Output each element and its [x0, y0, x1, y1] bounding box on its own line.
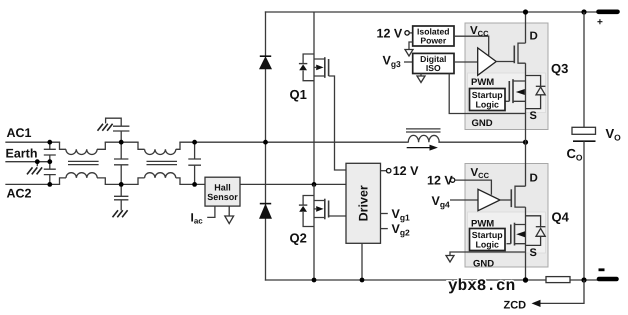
svg-text:Logic: Logic [475, 240, 499, 250]
transistor Q1 [299, 12, 346, 184]
svg-text:AC2: AC2 [7, 187, 32, 201]
capacitor chassis cap above AC1 with wire [106, 118, 130, 142]
resistor shunt [546, 277, 570, 283]
Hall sensor Iac lead [207, 206, 215, 217]
driver 12V terminal circle [387, 169, 391, 173]
Q3 inner shaded region [468, 73, 546, 113]
driver ground wire [361, 243, 363, 280]
svg-text:Q1: Q1 [290, 87, 307, 102]
svg-text:D: D [530, 173, 538, 185]
inductor common-mode choke L2 top winding [138, 142, 180, 184]
wire D1/D2 branch vertical [265, 12, 267, 280]
body diode Q3 [526, 76, 546, 109]
junction Q2 source x bottom rail [312, 278, 317, 283]
svg-text:Driver: Driver [357, 185, 371, 221]
label minus [599, 268, 605, 271]
wire isolated power gnd pin [409, 42, 413, 49]
svg-text:Power: Power [420, 36, 446, 46]
wire Q4 gnd to chassis arrow [450, 252, 526, 255]
capacitor below AC2 to chassis [114, 184, 128, 210]
svg-text:Sensor: Sensor [207, 192, 238, 202]
svg-text:+: + [597, 17, 603, 28]
wire digital ISO gnd to Q3 source [449, 74, 525, 114]
junction mid node (inductor / Q3 S / Q4 D) [523, 140, 528, 145]
junction node AC1 x D1/D2 [263, 140, 268, 145]
output + terminal bar [599, 10, 618, 15]
wire ZCD [538, 280, 584, 303]
ground arrow below digital ISO [417, 76, 425, 83]
svg-text:12 V: 12 V [393, 164, 419, 178]
junction driver gnd x bottom rail [360, 278, 365, 283]
svg-text:S: S [530, 110, 537, 122]
ground arrow below Hall [225, 206, 234, 224]
wire Q3 drain [525, 12, 527, 43]
startup logic box Q4 [470, 229, 506, 251]
transistor Q2 [299, 184, 346, 280]
transistor Q3 cascode low-voltage MOSFET [505, 79, 526, 103]
driver Vg1 stub [381, 213, 388, 215]
ground chassis hatch at Earth [27, 167, 42, 174]
inductor boost L [406, 129, 441, 142]
wire Earth line [6, 161, 50, 163]
wire top rail [266, 11, 600, 13]
svg-text:ybx8.cn: ybx8.cn [448, 277, 515, 295]
diode D2 [260, 204, 271, 219]
Q4 inner shaded region [468, 212, 546, 253]
driver 12V stub wire [381, 170, 387, 172]
junction Q4 source x bottom rail [523, 277, 528, 282]
svg-text:Q4: Q4 [552, 210, 570, 225]
wire right rail lower [583, 141, 585, 280]
isolated power box [413, 26, 454, 46]
junction dots EMI filter [35, 140, 197, 187]
ground chassis hatch below AC2 cap [113, 210, 128, 217]
current arrow Iin under inductor [407, 145, 438, 151]
wire earth ground stem [36, 162, 38, 167]
wire isolated power Vcc to buffer [454, 36, 489, 56]
transistor Q4 top depletion FET [511, 186, 525, 280]
wire AC2 line [6, 183, 346, 185]
Q4 outer shaded module box [465, 164, 548, 268]
svg-text:Hall: Hall [214, 183, 231, 193]
diode D1 [260, 56, 271, 69]
op-amp buffer Q4 [478, 189, 500, 210]
output - terminal bar [599, 277, 617, 282]
arrow ZCD [532, 300, 541, 307]
terminal circle 12V Q4 [450, 178, 454, 182]
wire right rail upper [583, 12, 585, 127]
ground arrow Q4 [446, 256, 454, 263]
svg-text:12 V: 12 V [377, 27, 403, 41]
svg-text:ISO: ISO [426, 63, 441, 73]
terminal circle 12V Q3 [405, 31, 409, 35]
junction Q3 drain x top rail [523, 9, 528, 14]
svg-text:Startup: Startup [472, 90, 503, 100]
ground chassis hatch top middle [98, 124, 113, 131]
ground arrow below 12V Q3 [405, 50, 413, 57]
wire Vg4 to buffer [450, 199, 478, 201]
svg-text:Earth: Earth [6, 147, 38, 161]
capacitor Y-cap lower (Earth-AC2) [44, 162, 56, 185]
op-amp buffer Q3 [478, 48, 497, 75]
capacitor X-cap mid column [114, 142, 128, 184]
svg-text:ZCD: ZCD [504, 300, 527, 312]
svg-text:Q2: Q2 [290, 231, 307, 246]
wire digital ISO out to buffer [454, 61, 478, 63]
driver Vg2 stub [381, 228, 388, 230]
inductor common-mode choke L1 top winding [60, 142, 106, 184]
startup logic box Q3 [470, 89, 506, 111]
svg-text:Logic: Logic [475, 100, 499, 110]
wire digital ISO gnd arrow stem [420, 74, 422, 76]
svg-text:GND: GND [472, 118, 493, 129]
svg-text:D: D [530, 31, 538, 43]
wire buffer out to gate Q4 top FET [500, 199, 511, 201]
svg-text:Startup: Startup [472, 230, 503, 240]
Hall sensor box [205, 177, 240, 206]
wire buffer out to gate Q3 top FET [496, 61, 514, 63]
driver block [346, 163, 381, 243]
svg-text:AC1: AC1 [7, 126, 32, 140]
junction dot left of shunt [523, 277, 528, 282]
svg-text:PWM: PWM [471, 77, 494, 88]
wire Vg3 to digital ISO [404, 61, 413, 63]
transistor Q4 cascode low-voltage MOSFET [507, 223, 526, 246]
wire 12V Q4 to Vcc [455, 180, 492, 195]
svg-text:S: S [530, 247, 537, 259]
capacitor Y-cap upper (AC1-Earth) [44, 142, 56, 162]
capacitor X-cap right column [188, 142, 201, 184]
inductor common-mode choke L2 core [147, 161, 178, 164]
body diode Q4 [526, 216, 546, 246]
junction top rail x output [581, 9, 586, 14]
capacitor CO output [572, 127, 596, 141]
wire bottom rail [266, 279, 601, 281]
digital ISO box [413, 53, 454, 73]
inductor common-mode choke L2 bottom winding [138, 178, 180, 185]
inductor common-mode choke L1 bottom winding [60, 178, 106, 185]
svg-text:12 V: 12 V [427, 174, 453, 188]
Q3 outer shaded module box [465, 23, 548, 130]
junction node Q1 source / Q2 drain / AC2 [312, 182, 317, 187]
wire Q4 drain [525, 142, 527, 186]
wire 12V to isolated power [409, 32, 412, 34]
svg-text:Q3: Q3 [551, 61, 568, 76]
svg-text:GND: GND [473, 259, 494, 270]
junction right rail x bottom rail [581, 277, 586, 282]
transistor Q3 top depletion FET [514, 43, 525, 142]
inductor common-mode choke L1 core [68, 161, 99, 164]
wire AC1 line [6, 141, 526, 143]
